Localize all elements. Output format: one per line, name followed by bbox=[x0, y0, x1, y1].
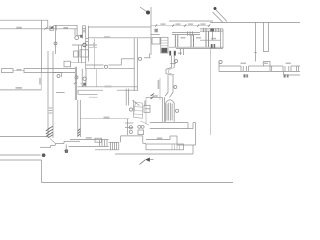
left band continuation bbox=[125, 122, 133, 124]
window ticks a bbox=[187, 31, 189, 35]
dim vertical x41.2 bbox=[40, 73, 42, 90]
corridor top line bbox=[88, 26, 150, 28]
bottom-left dim line y160 bbox=[0, 159, 42, 161]
window symbol bbox=[83, 43, 87, 47]
pier f bbox=[296, 66, 298, 71]
fixture rect 2 bbox=[80, 50, 89, 57]
window wall upper run bbox=[200, 28, 223, 30]
box inner ticks bbox=[171, 144, 173, 150]
stair shaft top cluster bbox=[161, 37, 168, 53]
tick on x255.5 bbox=[254, 52, 256, 54]
left wall band rect 1 bbox=[2, 69, 13, 73]
section arrow right line bbox=[150, 159, 154, 161]
winder stairs polygon bbox=[133, 102, 142, 118]
wall outer x88.4 bbox=[87, 26, 89, 62]
texts above right wall bbox=[241, 63, 247, 65]
chimney notch left bbox=[262, 23, 264, 52]
hatch marks at x47.8 bbox=[46, 128, 50, 136]
dim text 4 bbox=[201, 23, 206, 25]
shaft treads bbox=[161, 39, 168, 41]
dark hatch on x77.8 wall bbox=[78, 129, 81, 137]
wall ticks bbox=[83, 28, 85, 30]
window symbol on top wall bbox=[104, 65, 107, 68]
window symbol left wall R1 bbox=[83, 77, 86, 80]
window symbol center bbox=[138, 57, 141, 60]
stairs run2 right wall bbox=[118, 142, 120, 150]
tick across wall bbox=[170, 63, 176, 65]
circled door symbol bbox=[75, 36, 79, 40]
band right wall bbox=[195, 123, 197, 145]
winder treads bbox=[134, 106, 143, 109]
text 4.08 bbox=[16, 87, 23, 89]
vertical x133.7 bbox=[133, 100, 135, 115]
wall vertical x255.5 bbox=[255, 23, 257, 62]
bottom step vertical bbox=[192, 145, 194, 154]
central room bottom wall double bbox=[78, 86, 138, 88]
central room top wall inner bbox=[86, 68, 103, 70]
rotated text 4.45 bbox=[158, 80, 160, 89]
right end lower lip bbox=[284, 74, 300, 76]
text 7.52 bbox=[104, 117, 110, 119]
window symbol right wing bbox=[219, 60, 222, 63]
window symbol left wall bbox=[54, 42, 57, 45]
wall room A left vertical bbox=[55, 25, 57, 54]
window ticks c bbox=[215, 28, 217, 32]
wall double right x220.5 bbox=[220, 29, 222, 48]
wall below chunk double bbox=[171, 56, 173, 68]
window symbols pair on band bbox=[138, 125, 141, 128]
R1 left wall double bbox=[81, 69, 83, 87]
partition wall 1 bbox=[174, 35, 176, 48]
text 1.26 left bbox=[17, 69, 22, 71]
text 2.90 bbox=[86, 137, 92, 139]
room bottom wall cluster bbox=[169, 46, 223, 48]
pier b bbox=[246, 66, 248, 71]
left annex line bbox=[151, 34, 160, 36]
node junction box (47.5,26.5) bbox=[50, 27, 54, 31]
long bottom line y182.5 bbox=[42, 182, 234, 184]
stairs run2 rails bbox=[109, 141, 119, 143]
right wing left end wall bbox=[218, 61, 220, 71]
mid-left room top line bbox=[71, 62, 86, 64]
band lower line to x75.3 bbox=[42, 71, 76, 73]
window circle lower bbox=[174, 86, 177, 89]
room texts row bbox=[181, 37, 186, 39]
hatch below pier de bbox=[284, 74, 286, 77]
right wing wall top edge bbox=[219, 65, 241, 67]
dim tick 3 bbox=[184, 24, 186, 26]
tick marks at junction bbox=[44, 28, 47, 30]
window wall lower run bbox=[172, 31, 200, 33]
bubble dark bbox=[42, 153, 46, 157]
dark wall chunk bbox=[169, 51, 171, 56]
small vertical annex bbox=[148, 54, 150, 58]
small line annex bbox=[144, 57, 151, 59]
text 1.26 small bbox=[178, 53, 182, 54]
junction jamb right bbox=[55, 26, 57, 31]
door swing small bbox=[81, 83, 85, 87]
label bubble 2 dark bbox=[214, 7, 217, 10]
cross vline bbox=[65, 145, 67, 154]
small L lines bbox=[53, 72, 62, 74]
section arrow dark bbox=[145, 158, 150, 162]
partition wall 2 bbox=[190, 35, 192, 48]
dim tick 2 bbox=[172, 24, 174, 26]
small inner wall bbox=[211, 31, 213, 40]
dark threshold mark bbox=[83, 83, 86, 86]
pier e bbox=[288, 66, 290, 71]
pier d bbox=[282, 66, 284, 71]
rotated text on x93 bbox=[93, 43, 95, 48]
bump on wall bbox=[263, 62, 270, 67]
text 4.13 bbox=[105, 86, 112, 88]
room step horizontal bbox=[121, 58, 134, 60]
door swing diagonal bottom-left bbox=[50, 139, 56, 144]
upper line of lower block bbox=[146, 96, 162, 98]
wire step bottom bbox=[77, 35, 81, 37]
wall room A right vertical outer bbox=[76, 25, 78, 35]
pier c bbox=[269, 66, 271, 71]
wire lines right of wall bbox=[88, 46, 97, 48]
leader line bbox=[140, 7, 147, 12]
wire room A top inner bbox=[57, 28, 77, 30]
room step vertical bbox=[120, 59, 122, 65]
window symbol shaft right bbox=[175, 109, 178, 112]
dim vertical x146 bbox=[145, 97, 147, 124]
roof diagonal 1 bbox=[216, 10, 228, 22]
tick on wall bbox=[74, 82, 76, 84]
door swing diagonal bbox=[133, 101, 140, 106]
vertical x127.6 with symbols bbox=[127, 119, 129, 135]
small box right bbox=[144, 105, 150, 112]
dark corner blob bbox=[80, 35, 82, 38]
stair landing rect bbox=[95, 138, 102, 142]
small tick cross bbox=[64, 150, 68, 152]
small line in box bbox=[145, 108, 150, 110]
wall vertical x41.5 bottom bbox=[41, 160, 43, 183]
dimension line y25.6 bbox=[151, 25, 211, 27]
top cluster exterior wall bbox=[169, 20, 213, 22]
corridor left wall double bbox=[82, 26, 84, 39]
fixture rect 1 bbox=[74, 51, 78, 57]
room divider line right bbox=[200, 39, 221, 41]
dark blob bbox=[65, 150, 68, 153]
lower room line bbox=[177, 144, 196, 146]
dim tick 5 bbox=[208, 24, 210, 26]
dark fixture marks right room bbox=[211, 44, 213, 48]
leader line y155 bbox=[0, 154, 41, 156]
lower-left block wall double x77.8 bbox=[77, 100, 79, 137]
dim tick 1 bbox=[155, 24, 157, 26]
platform outline bbox=[121, 135, 143, 137]
small dash line bbox=[56, 92, 65, 94]
inner wall jambs x78.6 x81.6 bbox=[78, 45, 80, 62]
right wing wall bottom edge bbox=[219, 70, 300, 72]
wall lower run double bbox=[167, 75, 169, 92]
pier a bbox=[240, 66, 242, 71]
dim vline x93 bbox=[94, 39, 96, 69]
left room top line bbox=[0, 89, 42, 91]
small box on band bbox=[64, 61, 71, 67]
wall top-left horizontal bbox=[0, 28, 57, 30]
stair treads run1 bbox=[99, 140, 101, 147]
section arrow tail bbox=[140, 160, 146, 165]
text 2.08 room A bbox=[64, 27, 69, 29]
label bubble dark bbox=[146, 11, 150, 15]
left room bottom line bbox=[0, 136, 48, 138]
left wall band rect 2 bbox=[24, 69, 41, 73]
door diagonal to band bbox=[141, 121, 149, 125]
roof diagonal 2 bbox=[213, 12, 224, 23]
band upper line to x75.3 bbox=[42, 67, 76, 69]
junction jamb left bbox=[49, 26, 51, 31]
corridor wall cap bbox=[83, 25, 86, 27]
partition wall 3 bbox=[205, 31, 207, 47]
door line between bbox=[13, 70, 24, 72]
dim vline x160 bbox=[159, 78, 161, 100]
band bottom edge bbox=[150, 128, 188, 130]
stepped landing lines bbox=[40, 146, 51, 148]
text 2.08b bbox=[152, 95, 158, 97]
dim text 3 bbox=[188, 23, 193, 25]
ticks inside wall x48 bbox=[49, 107, 52, 109]
closet wall x96.4 bbox=[95, 69, 97, 87]
text 1.06 corridor bbox=[104, 36, 110, 38]
stair treads run2 bbox=[110, 142, 112, 150]
dim text 1 bbox=[161, 23, 166, 25]
rotated text on x146 bbox=[144, 101, 146, 107]
corridor bottom line bbox=[88, 37, 150, 39]
text 1.76 bbox=[157, 137, 163, 139]
shaft arc top bbox=[166, 100, 175, 103]
bottom jog diagonals bbox=[165, 93, 168, 97]
jamb lines below cluster wall bbox=[180, 49, 182, 56]
wall room A right vertical inner bbox=[74, 29, 76, 36]
chimney notch bottom bbox=[263, 51, 268, 53]
dim line inside big room bbox=[80, 118, 129, 120]
closet below R1 corner bbox=[77, 90, 79, 94]
band notch bbox=[187, 123, 189, 129]
long top-right wall line bbox=[210, 22, 300, 24]
small box under band bbox=[138, 130, 144, 135]
band top edge bbox=[150, 122, 188, 124]
dark hatch ticks left low bbox=[151, 94, 155, 97]
window symbol small bbox=[57, 75, 60, 78]
center wall double x136.3 bbox=[133, 38, 135, 91]
shaft outline lower bbox=[165, 103, 167, 122]
dimension line top-left bbox=[0, 19, 48, 21]
shaft hatch verticals bbox=[166, 104, 168, 121]
rotated text 2.62 bbox=[39, 78, 41, 85]
long wall double x48 bbox=[47, 51, 49, 138]
wall vertical x41.5 bbox=[41, 20, 43, 68]
ledge lines bbox=[86, 38, 89, 40]
window ticks b bbox=[203, 28, 205, 32]
bottom step line y154 bbox=[115, 153, 193, 155]
text 2.85 label bbox=[16, 27, 22, 29]
wall vertical pair x75.3 bbox=[74, 67, 76, 100]
stairs upper rail bbox=[70, 139, 109, 141]
dark dim ticks bbox=[51, 26, 53, 28]
shaft dark hatch bbox=[161, 48, 167, 53]
hatch below pier ab bbox=[244, 74, 246, 77]
bottom box long bbox=[146, 144, 184, 150]
dim tick 4 bbox=[197, 24, 199, 26]
small room box bbox=[152, 38, 160, 45]
stairs lower rail bbox=[69, 145, 109, 147]
lower room notch bbox=[176, 136, 178, 145]
dark pier bbox=[210, 28, 214, 31]
wall double x126.2 upper bbox=[125, 89, 127, 106]
window symbol bbox=[129, 108, 132, 111]
wall vertical x150.5 bbox=[150, 7, 152, 55]
window circles mid bbox=[175, 60, 178, 63]
wire room A top outer bbox=[53, 24, 77, 26]
dim text 2 bbox=[176, 23, 181, 25]
wire fixtures top bbox=[72, 44, 97, 46]
text 1.10 bbox=[155, 29, 158, 33]
dark hatch bottom of wall x48 bbox=[48, 126, 53, 137]
long interior vertical x210.3 bbox=[209, 48, 211, 135]
window symbols mid-left bbox=[75, 76, 78, 79]
bay jog outline bbox=[166, 68, 172, 76]
wall double x162.3 bbox=[161, 97, 163, 122]
chimney notch right bbox=[268, 23, 270, 52]
lower room left line bbox=[146, 139, 170, 141]
central room top wall outer bbox=[86, 64, 103, 66]
